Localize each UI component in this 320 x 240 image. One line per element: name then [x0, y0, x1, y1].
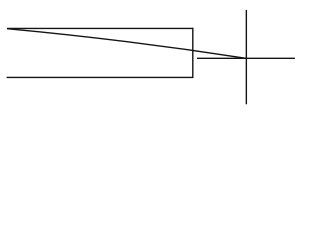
cross horizontal line: [197, 57, 295, 59]
curved sight line from box corner to cross centre: [7, 29, 246, 59]
box top edge: [7, 27, 193, 29]
box bottom edge: [7, 76, 193, 78]
cross vertical line: [245, 10, 247, 104]
box right edge: [192, 28, 194, 78]
